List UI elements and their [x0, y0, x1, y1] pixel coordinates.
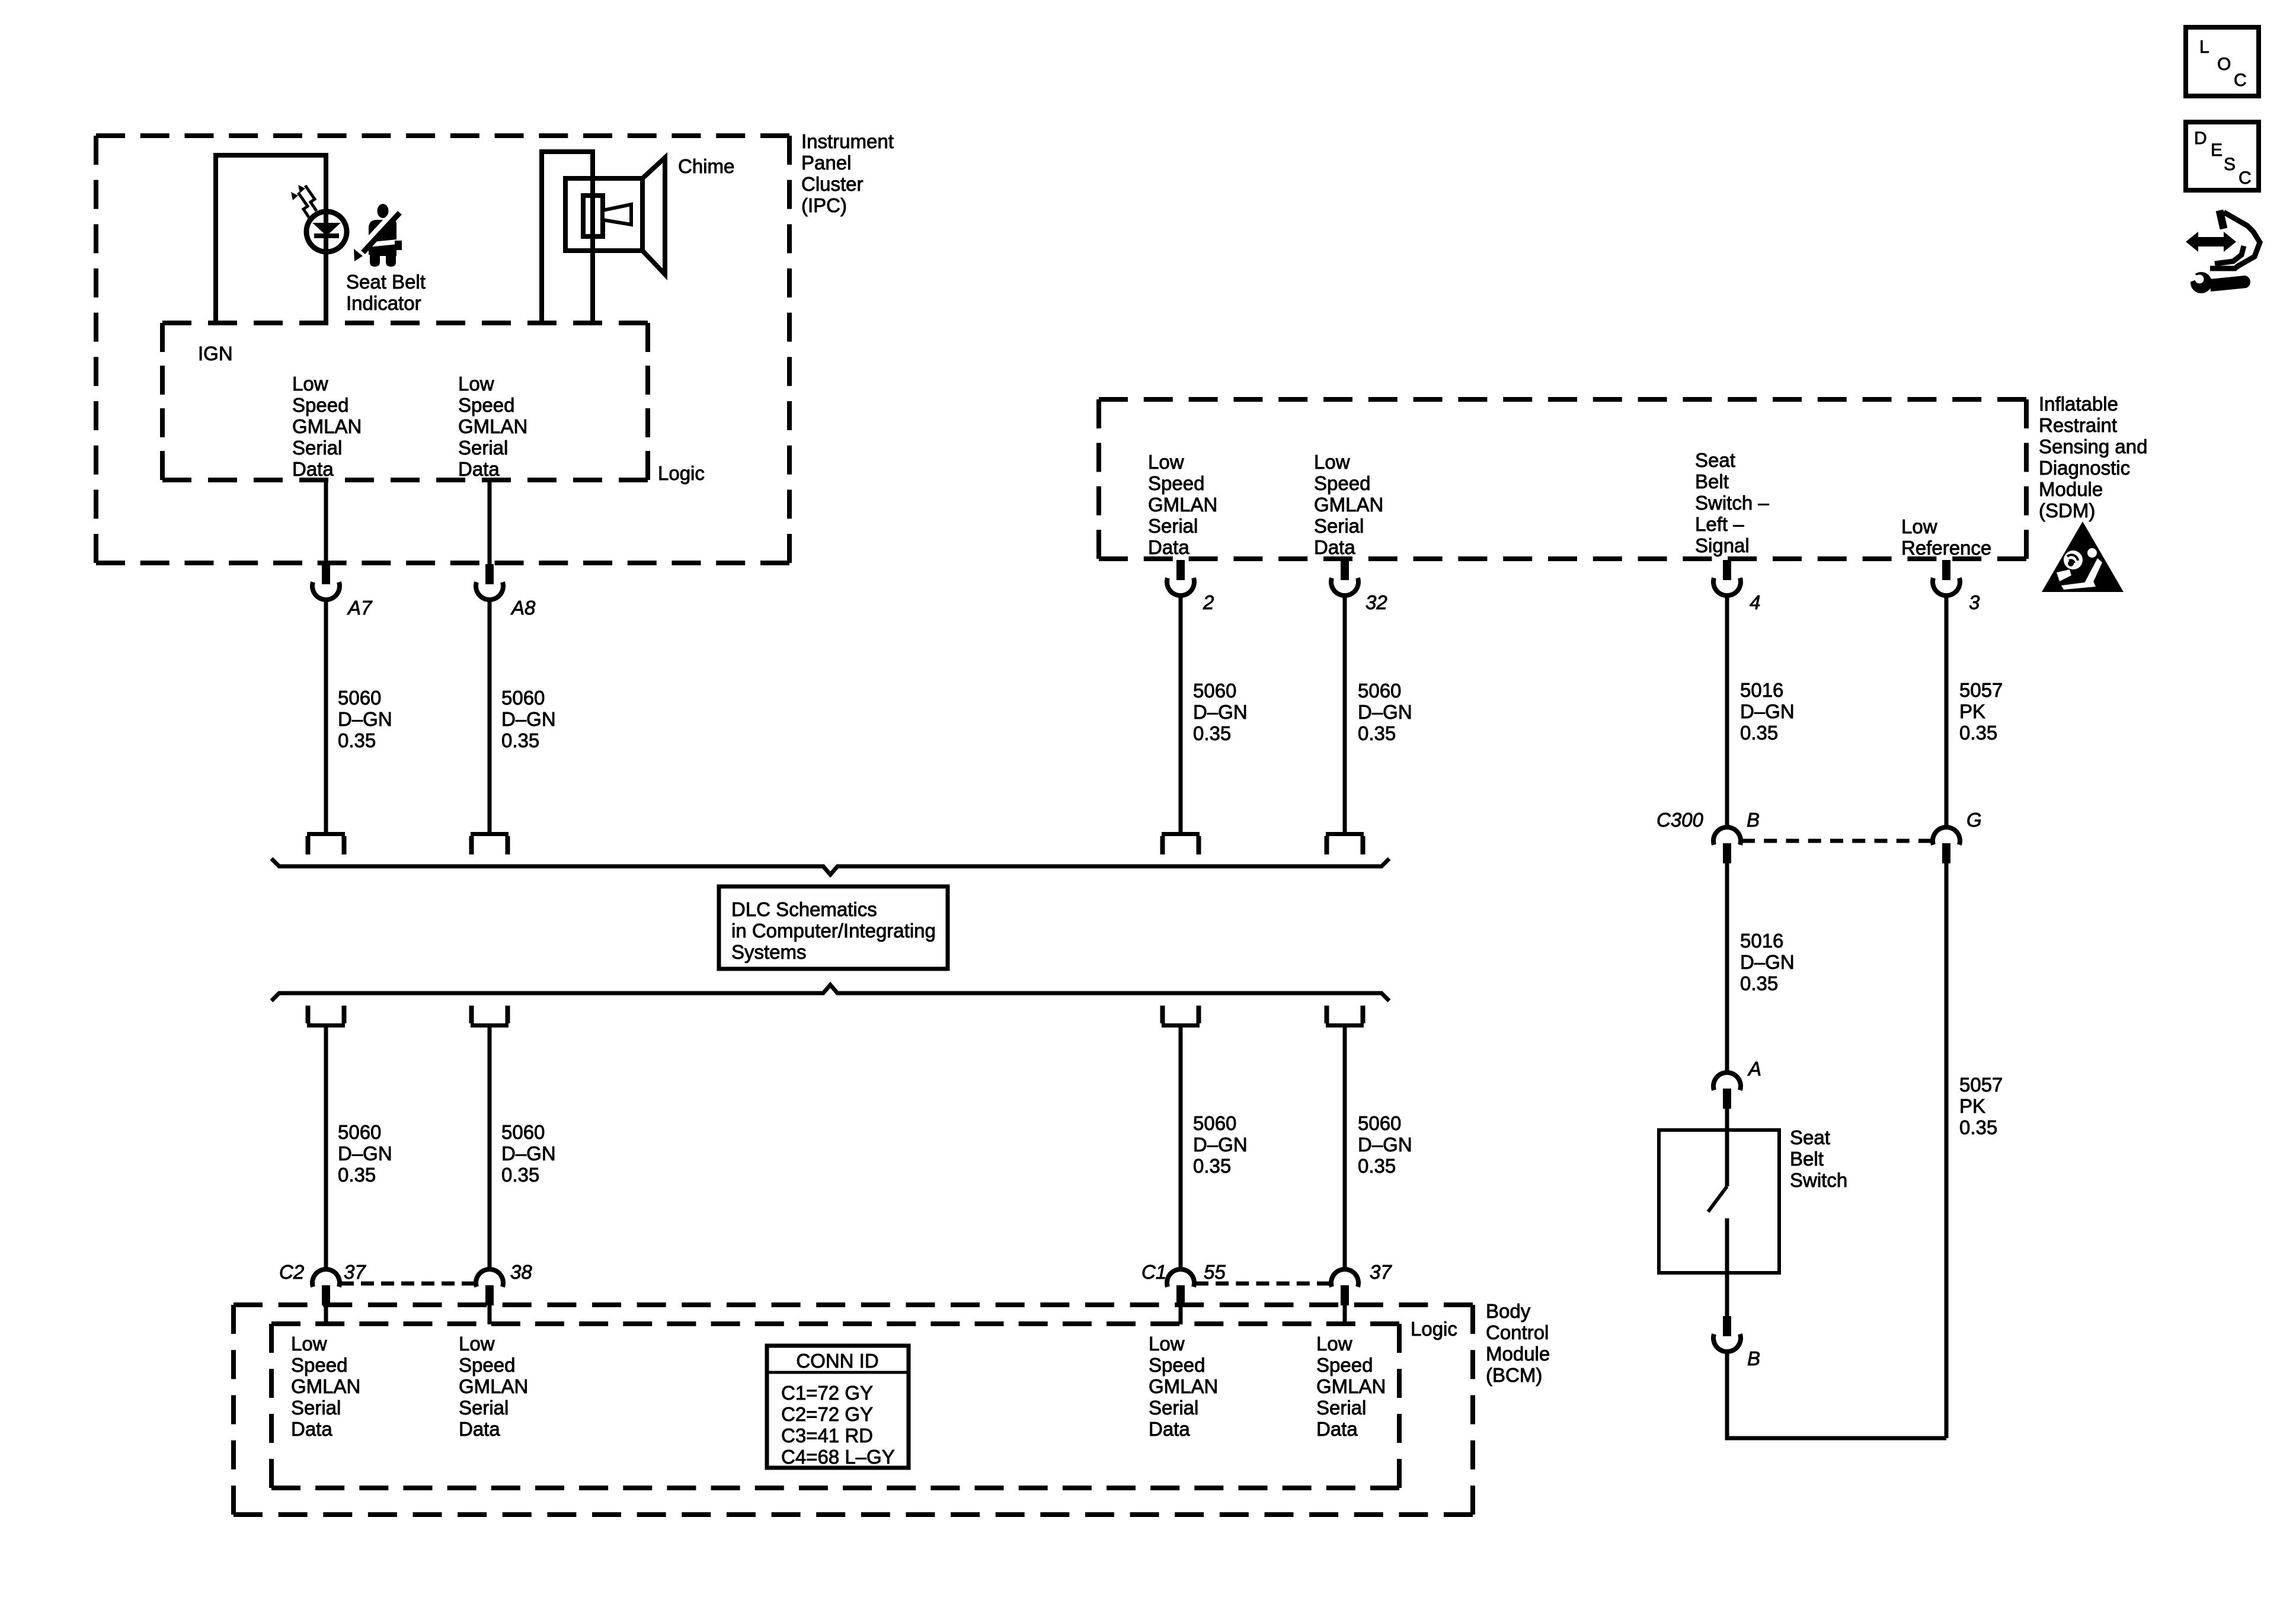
svg-text:38: 38 [510, 1261, 532, 1283]
connector pin B (switch bottom) [1713, 1316, 1741, 1352]
svg-text:C3=41 RD: C3=41 RD [781, 1425, 873, 1446]
svg-text:Panel: Panel [801, 152, 851, 174]
svg-text:2: 2 [1203, 591, 1214, 613]
BCM module dashed box [234, 1302, 1473, 1307]
svg-text:Low: Low [1149, 1333, 1185, 1355]
svg-text:0.35: 0.35 [1740, 972, 1778, 994]
svg-text:E: E [2211, 140, 2223, 160]
svg-text:37: 37 [1370, 1261, 1392, 1283]
svg-text:Data: Data [459, 1418, 500, 1440]
connector tie line C300 [1742, 839, 1932, 843]
double arrow icon [2186, 232, 2236, 252]
switch blade [1708, 1186, 1727, 1212]
bus terminal col1 top [307, 832, 345, 854]
svg-text:D–GN: D–GN [1193, 1134, 1248, 1156]
connector pin 32 (SDM) [1331, 560, 1358, 596]
bus terminal bottom x=550 [307, 1006, 345, 1028]
svg-text:0.35: 0.35 [1740, 722, 1778, 744]
svg-text:Seat: Seat [1790, 1126, 1830, 1148]
svg-text:4: 4 [1750, 591, 1760, 613]
svg-text:5060: 5060 [338, 1121, 381, 1143]
svg-text:Systems: Systems [731, 941, 807, 963]
svg-text:0.35: 0.35 [1959, 722, 1997, 744]
pointer outline icon [2210, 212, 2260, 268]
wire BCM pin stub to logic box x=1992 [1179, 1305, 1183, 1324]
wire 5060 col1 upper [324, 600, 328, 832]
svg-text:0.35: 0.35 [501, 729, 539, 751]
svg-text:Low: Low [291, 1333, 327, 1355]
svg-text:Low: Low [292, 373, 328, 395]
LED light arrows [291, 185, 316, 218]
svg-text:DLC Schematics: DLC Schematics [731, 898, 877, 920]
svg-text:0.35: 0.35 [501, 1164, 539, 1186]
svg-text:5016: 5016 [1740, 930, 1783, 952]
svg-text:G: G [1966, 809, 1982, 831]
wire 5016 col5 upper [1725, 596, 1729, 827]
svg-text:Module: Module [2039, 478, 2103, 500]
DLC Schematics reference box [719, 886, 948, 969]
svg-text:C2=72 GY: C2=72 GY [781, 1403, 873, 1425]
svg-text:Speed: Speed [291, 1354, 347, 1376]
svg-text:Body: Body [1486, 1300, 1531, 1322]
svg-text:Switch –: Switch – [1695, 492, 1769, 514]
bus terminal bottom x=1992 [1162, 1006, 1200, 1028]
svg-text:Low: Low [459, 1333, 495, 1355]
connector pin 38 (BCM) [476, 1269, 503, 1305]
svg-text:GMLAN: GMLAN [292, 415, 362, 437]
svg-text:(IPC): (IPC) [801, 194, 847, 216]
svg-text:0.35: 0.35 [1193, 1155, 1231, 1177]
svg-text:Restraint: Restraint [2039, 414, 2117, 436]
svg-text:0.35: 0.35 [1358, 722, 1396, 744]
svg-text:5060: 5060 [1358, 1112, 1401, 1134]
svg-text:Speed: Speed [1316, 1354, 1373, 1376]
svg-text:(BCM): (BCM) [1486, 1364, 1542, 1386]
svg-text:3: 3 [1969, 591, 1980, 613]
svg-text:5060: 5060 [1193, 680, 1236, 702]
svg-text:Serial: Serial [291, 1397, 341, 1419]
svg-text:GMLAN: GMLAN [458, 415, 527, 437]
svg-text:Low: Low [1901, 516, 1937, 537]
svg-text:Chime: Chime [678, 155, 734, 177]
seat belt switch box [1659, 1130, 1779, 1273]
LED D1 seat belt indicator lamp [306, 212, 347, 252]
svg-text:Seat: Seat [1695, 449, 1735, 471]
svg-text:IGN: IGN [198, 343, 233, 364]
svg-text:Module: Module [1486, 1343, 1550, 1365]
svg-text:0.35: 0.35 [1358, 1155, 1396, 1177]
svg-text:Data: Data [1149, 1418, 1190, 1440]
wire pin A to switch [1725, 1109, 1729, 1186]
svg-text:Low: Low [1314, 451, 1350, 473]
bus terminal bottom x=2269 [1326, 1006, 1364, 1028]
svg-text:Left –: Left – [1695, 513, 1744, 535]
svg-text:0.35: 0.35 [1959, 1116, 1997, 1138]
svg-text:GMLAN: GMLAN [291, 1375, 360, 1397]
svg-text:C1=72 GY: C1=72 GY [781, 1382, 873, 1404]
connector pin 37b (BCM) [1331, 1269, 1358, 1305]
svg-text:Speed: Speed [1314, 472, 1370, 494]
bus terminal col3 top [1162, 832, 1200, 854]
wire col2 IPC to pin A8 [488, 480, 492, 564]
svg-text:D: D [2194, 129, 2207, 148]
svg-text:Speed: Speed [1149, 1354, 1205, 1376]
svg-text:55: 55 [1204, 1261, 1226, 1283]
svg-text:5060: 5060 [501, 1121, 545, 1143]
svg-text:C: C [2234, 71, 2247, 90]
svg-text:Belt: Belt [1790, 1148, 1824, 1170]
connector pin 2 (SDM) [1167, 560, 1194, 596]
connector pin A7 [312, 564, 340, 600]
svg-text:Speed: Speed [459, 1354, 515, 1376]
svg-text:Signal: Signal [1695, 534, 1750, 556]
airbag warning triangle icon [2042, 521, 2124, 592]
svg-text:5060: 5060 [501, 687, 545, 709]
svg-text:Data: Data [292, 458, 334, 480]
connector pin 3 (SDM) [1933, 560, 1960, 596]
svg-text:32: 32 [1366, 591, 1387, 613]
svg-text:Serial: Serial [459, 1397, 509, 1419]
svg-text:Control: Control [1486, 1321, 1549, 1343]
svg-text:Cluster: Cluster [801, 173, 864, 195]
svg-text:5016: 5016 [1740, 679, 1783, 701]
svg-text:A: A [1747, 1058, 1761, 1080]
svg-text:L: L [2199, 37, 2209, 57]
wire 5016 col5 lower [1725, 863, 1729, 1073]
svg-text:D–GN: D–GN [1740, 951, 1795, 973]
CONN ID table [767, 1346, 909, 1468]
svg-text:Serial: Serial [458, 437, 508, 459]
svg-text:Data: Data [1314, 536, 1355, 558]
svg-text:Data: Data [1316, 1418, 1358, 1440]
svg-text:A7: A7 [347, 597, 373, 619]
svg-text:5057: 5057 [1959, 679, 2003, 701]
svg-text:Data: Data [458, 458, 500, 480]
svg-text:PK: PK [1959, 1095, 1985, 1117]
wire 5060 lower x=2269 [1343, 1028, 1347, 1269]
svg-text:in Computer/Integrating: in Computer/Integrating [731, 920, 936, 942]
svg-text:5060: 5060 [1358, 680, 1401, 702]
svg-text:D–GN: D–GN [1193, 701, 1248, 723]
svg-text:Serial: Serial [292, 437, 342, 459]
wire: chime loop [542, 152, 593, 323]
svg-text:Speed: Speed [292, 394, 348, 416]
bottom data bus brace [271, 985, 1389, 1001]
svg-text:B: B [1747, 1347, 1760, 1369]
switch lower contact wire [1725, 1218, 1729, 1316]
svg-text:Diagnostic: Diagnostic [2039, 457, 2130, 479]
svg-text:Logic: Logic [658, 462, 705, 484]
svg-text:D–GN: D–GN [338, 1142, 392, 1164]
svg-text:S: S [2224, 155, 2236, 174]
svg-text:A8: A8 [510, 597, 536, 619]
svg-text:C2: C2 [279, 1261, 304, 1283]
svg-text:Data: Data [1148, 536, 1189, 558]
DESC reference box [2186, 122, 2259, 190]
top data bus brace [271, 859, 1389, 875]
wire BCM pin stub to logic box x=2269 [1343, 1305, 1347, 1324]
svg-text:PK: PK [1959, 700, 1985, 722]
wire 5057 col6 run down [1945, 863, 1949, 1438]
wire col1 IPC to pin A7 [324, 480, 328, 564]
wire BCM pin stub to logic box x=550 [324, 1305, 328, 1324]
wire 5060 lower x=826 [488, 1028, 492, 1269]
svg-text:CONN ID: CONN ID [796, 1350, 878, 1372]
svg-text:Speed: Speed [1148, 472, 1204, 494]
svg-text:Inflatable: Inflatable [2039, 393, 2118, 415]
svg-text:GMLAN: GMLAN [1316, 1375, 1386, 1397]
svg-text:Instrument: Instrument [801, 130, 894, 152]
svg-text:Low: Low [458, 373, 494, 395]
svg-text:0.35: 0.35 [1193, 722, 1231, 744]
svg-text:O: O [2217, 55, 2231, 74]
svg-text:D–GN: D–GN [501, 708, 556, 730]
svg-text:Low: Low [1316, 1333, 1352, 1355]
wire 5060 col4 upper [1343, 596, 1347, 832]
svg-text:5057: 5057 [1959, 1074, 2003, 1096]
svg-text:0.35: 0.35 [338, 729, 376, 751]
svg-text:Serial: Serial [1314, 515, 1364, 537]
IGN/Logic inner dashed box [162, 321, 648, 325]
connector pin C2-37 (BCM) [312, 1269, 340, 1305]
svg-text:0.35: 0.35 [338, 1164, 376, 1186]
svg-text:C: C [2239, 168, 2252, 188]
svg-text:5060: 5060 [1193, 1112, 1236, 1134]
svg-text:D–GN: D–GN [501, 1142, 556, 1164]
svg-text:D–GN: D–GN [1358, 1134, 1412, 1156]
svg-text:Sensing and: Sensing and [2039, 436, 2147, 457]
svg-text:GMLAN: GMLAN [1314, 494, 1383, 516]
bus terminal col2 top [471, 832, 509, 854]
BCM Logic inner dashed box [271, 1321, 1399, 1326]
svg-text:Belt: Belt [1695, 470, 1729, 492]
svg-text:Serial: Serial [1316, 1397, 1366, 1419]
svg-text:Serial: Serial [1149, 1397, 1198, 1419]
wire 5060 lower x=1992 [1179, 1028, 1183, 1269]
svg-text:GMLAN: GMLAN [1148, 494, 1217, 516]
svg-text:Seat Belt: Seat Belt [346, 271, 426, 293]
SDM module dashed box [1099, 397, 2026, 402]
svg-text:GMLAN: GMLAN [1149, 1375, 1218, 1397]
svg-text:Low: Low [1148, 451, 1184, 473]
seat belt person icon [354, 204, 402, 267]
svg-text:C300: C300 [1657, 809, 1704, 831]
svg-text:Indicator: Indicator [346, 292, 421, 314]
svg-text:GMLAN: GMLAN [459, 1375, 528, 1397]
connector pin 4 (SDM) [1713, 560, 1741, 596]
wire 5060 lower x=550 [324, 1028, 328, 1269]
svg-text:Serial: Serial [1148, 515, 1198, 537]
bus terminal col4 top [1326, 832, 1364, 854]
svg-text:C4=68 L–GY: C4=68 L–GY [781, 1446, 895, 1468]
svg-text:D–GN: D–GN [1740, 700, 1795, 722]
svg-text:Speed: Speed [458, 394, 514, 416]
svg-text:Switch: Switch [1790, 1169, 1847, 1191]
svg-text:37: 37 [344, 1261, 366, 1283]
svg-text:D–GN: D–GN [1358, 701, 1412, 723]
svg-text:B: B [1747, 809, 1760, 831]
svg-text:(SDM): (SDM) [2039, 500, 2095, 521]
wire BCM pin stub to logic box x=826 [488, 1305, 492, 1324]
bus terminal bottom x=826 [471, 1006, 509, 1028]
chime speaker [565, 158, 665, 274]
wrench icon [2186, 270, 2250, 293]
pointer tail [2220, 210, 2224, 229]
connector C300 pin G [1933, 827, 1960, 863]
svg-text:Logic: Logic [1411, 1318, 1457, 1340]
connector tie line C2 [341, 1282, 475, 1286]
svg-text:Reference: Reference [1901, 537, 1991, 559]
connector pin A8 [476, 564, 503, 600]
wire 5057 col6 upper [1945, 596, 1949, 827]
svg-text:5060: 5060 [338, 687, 381, 709]
wire 5060 col3 upper [1179, 596, 1183, 832]
svg-text:D–GN: D–GN [338, 708, 392, 730]
wire switch B to low reference return [1727, 1352, 1946, 1438]
wire 5060 col2 upper [488, 600, 492, 832]
svg-text:C1: C1 [1141, 1261, 1166, 1283]
svg-text:Data: Data [291, 1418, 332, 1440]
wire: seat belt indicator loop [216, 155, 326, 323]
LOC reference box [2186, 27, 2259, 96]
connector pin A (switch) [1713, 1073, 1741, 1109]
connector C300 pin B [1713, 827, 1741, 863]
IPC module dashed box [96, 133, 789, 138]
connector tie line C1 [1195, 1282, 1330, 1286]
connector pin C1-55 (BCM) [1167, 1269, 1194, 1305]
